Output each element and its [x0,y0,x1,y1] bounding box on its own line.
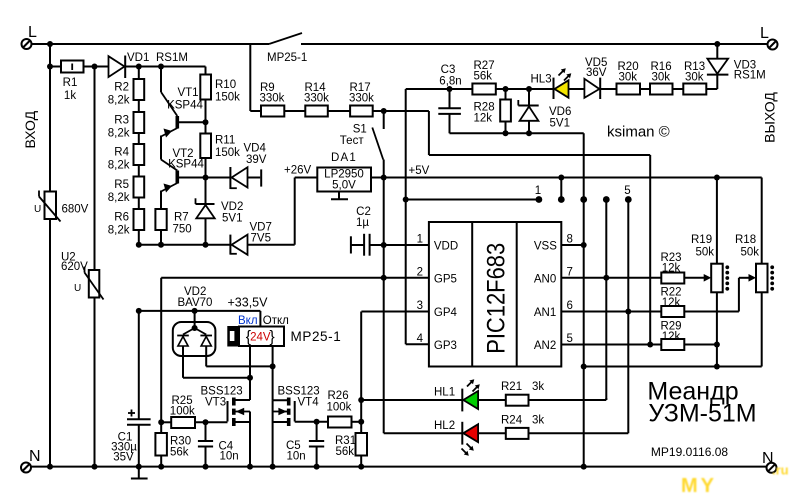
node R28 bottom [503,130,509,136]
zener VD4 39V [206,143,267,190]
svg-text:.ru: .ru [772,463,789,478]
svg-text:2: 2 [417,266,423,278]
node relay pin2 / VT4 drain [270,363,276,369]
ground DA1 [331,192,348,200]
svg-text:Тест: Тест [340,135,365,147]
node R19 gnd [714,364,720,370]
svg-text:5: 5 [624,185,630,197]
svg-text:750: 750 [173,224,192,236]
resistor R28 12k [474,89,511,133]
svg-text:1k: 1k [64,90,76,102]
svg-text:+33,5V: +33,5V [228,296,269,310]
svg-text:7: 7 [567,266,573,278]
svg-text:3: 3 [417,300,423,312]
relay MP25-1 coil [228,315,342,346]
terminal L right [760,25,778,50]
node R7 bottom [158,242,164,248]
svg-text:N: N [29,448,41,465]
svg-text:5: 5 [567,333,573,345]
svg-text:330k: 330k [260,93,285,105]
wire C3 row left [406,88,473,90]
svg-text:HL3: HL3 [531,74,552,86]
zener VD7 7V5 [230,222,294,255]
svg-text:MP19.0116.08: MP19.0116.08 [651,445,728,459]
wire C3 bottom rail [450,132,584,134]
wire gnd bus to pots [584,366,762,368]
resistor R27 56k [472,60,553,95]
node test pin 2 [558,175,565,203]
svg-text:4: 4 [417,333,424,345]
node chain tap [136,308,142,314]
capacitor C4 10n [198,422,239,466]
wire AN1 drop [627,200,629,434]
led HL2 red [384,420,506,456]
svg-text:VT4: VT4 [298,397,320,409]
svg-text:10n: 10n [287,451,306,463]
svg-text:35V: 35V [113,452,134,464]
terminal L left [22,24,38,49]
resistor R29 12k [660,321,716,351]
svg-text:MP25-1: MP25-1 [291,329,342,344]
svg-text:R6: R6 [114,212,129,224]
svg-text:30k: 30k [619,72,638,84]
pin 6 AN1 wire [561,300,661,312]
svg-text:56k: 56k [474,71,493,83]
wire divider bottom rail [139,244,231,246]
svg-text:680V: 680V [62,204,89,216]
node VD6 top [526,86,532,92]
svg-text:VD2: VD2 [221,201,243,213]
svg-text:C3: C3 [441,64,456,76]
svg-text:VT1: VT1 [177,87,198,99]
svg-text:30k: 30k [652,72,671,84]
node +5V / DA1 out [381,175,387,181]
resistor R22 12k [660,287,738,318]
node R19 top +5V [714,175,720,181]
pin 4 label [417,333,424,345]
node gnd wire left [581,364,587,370]
zener VD2 5V1 [196,178,244,245]
wire GP3 net vertical [406,89,429,344]
svg-text:12k: 12k [662,331,681,343]
svg-text:30k: 30k [685,72,704,84]
svg-text:VSS: VSS [534,241,557,253]
resistor R17 330k [349,82,429,117]
wire GP4 net vertical [360,312,362,422]
svg-text:6,8n: 6,8n [439,76,461,88]
svg-text:MP25-1: MP25-1 [267,52,307,64]
node R28 top [503,86,509,92]
svg-text:1: 1 [535,185,541,197]
svg-text:6: 6 [567,300,573,312]
svg-text:KSP44: KSP44 [168,159,204,171]
transistor VT1 KSP44 [161,67,206,160]
svg-text:150k: 150k [215,92,240,104]
svg-text:620V: 620V [61,261,88,273]
svg-text:RS1M: RS1M [156,52,188,64]
resistor R14 330k [304,82,350,117]
svg-text:10n: 10n [220,451,239,463]
svg-text:AN2: AN2 [534,340,556,352]
potentiometer R19 50k [691,178,729,367]
varistor U2 620V [61,252,104,300]
svg-text:R4: R4 [114,147,129,159]
svg-text:100k: 100k [170,406,195,418]
node VT2 base / VD4 / VD2 [203,175,209,181]
svg-text:39V: 39V [246,154,267,166]
node R19 bottom / R29 [714,342,720,348]
resistor R3 8,2k [108,100,144,140]
capacitor C3 6,8n [438,64,461,133]
led HL1 green [361,379,506,411]
svg-text:R3: R3 [114,115,129,127]
svg-text:50k: 50k [696,247,715,259]
svg-text:8,2k: 8,2k [108,192,130,204]
svg-text:PIC12F683: PIC12F683 [483,243,511,354]
led HL3 yellow [531,68,585,99]
svg-text:Откл: Откл [263,315,289,327]
text input label [22,110,38,148]
label +26V [284,165,312,177]
resistor R21 3k [501,381,606,406]
wire R9 feed drop [250,44,261,111]
resistor R31 56k [335,422,367,467]
svg-text:ВЫХОД: ВЫХОД [762,92,778,143]
resistor R30 56k [155,422,191,466]
resistor R5 8,2k [108,165,144,204]
resistor R6 8,2k [108,198,144,245]
transistor VT3 BSS123 [201,386,251,467]
label +33,5V [228,296,269,310]
transistor VT4 BSS123 [273,386,320,467]
resistor R11 150k [200,122,240,177]
svg-text:MY: MY [681,475,717,497]
resistor R7 750 [155,209,191,245]
text output label [762,92,778,143]
svg-text:330k: 330k [349,93,374,105]
node R25 left / R30 top [158,419,164,425]
diode VD5 36V [584,57,616,99]
wire VD7 riser to +26V [294,178,296,245]
svg-text:AN0: AN0 [534,273,556,285]
node rail dots bottom [47,464,587,470]
transistor VT2 KSP44 [161,148,206,209]
wire sense path right [429,111,650,345]
svg-text:8: 8 [567,234,573,246]
svg-text:HL2: HL2 [434,420,455,432]
wire U2 column lower [94,298,96,467]
svg-text:KSP44: KSP44 [167,100,203,112]
resistor R20 30k [617,61,651,95]
capacitor C2 1µ [351,206,384,256]
wire bottom rail [31,466,767,468]
wire top rail left [32,43,270,45]
capacitor C5 10n [286,422,324,467]
wire main mid vertical [383,178,385,434]
svg-text:AN1: AN1 [534,307,556,319]
node connector feed [403,197,409,203]
wire test connector row [406,199,539,201]
node test pin 1 [535,185,543,203]
svg-text:VDD: VDD [434,241,458,253]
regulator DA1 LP2950 5,0V [317,152,371,192]
resistor R24 3k [501,414,628,439]
text doc number [651,445,728,459]
svg-text:BAV70: BAV70 [178,297,213,309]
svg-text:GP3: GP3 [434,340,457,352]
resistor R25 100k [161,395,227,428]
svg-text:1: 1 [417,234,423,246]
node R2 top [136,64,142,70]
resistor R9 330k [260,82,306,117]
terminal N right [762,450,777,473]
diode VD1 RS1M [95,52,188,78]
svg-text:DA1: DA1 [331,152,357,164]
ic U1 PIC12F683 [429,222,561,367]
node C3 top [447,86,453,92]
wire +33,5V line [139,311,261,327]
node U2 top [92,64,98,70]
varistor U1 680V [34,191,89,222]
svg-text:5V1: 5V1 [550,118,570,130]
wire +26V to DA1 [295,177,318,179]
resistor R1 1k (fusible) [50,61,95,103]
svg-text:150k: 150k [215,147,240,159]
wire rail2 to R10 [139,67,206,75]
svg-text:5,0V: 5,0V [332,180,356,192]
svg-text:R1: R1 [63,77,78,89]
zener VD6 5V1 [518,89,571,133]
wire VSS ground drop [583,133,585,466]
potentiometer R18 50k [735,178,774,367]
svg-text:ksiman ©: ksiman © [607,124,670,141]
svg-text:7V5: 7V5 [251,233,271,245]
wire DA1 output [371,177,384,179]
svg-text:3k: 3k [532,381,544,393]
node relay pin1 / VT3 drain [247,375,253,381]
pin 2 label [417,266,423,278]
svg-text:36V: 36V [586,67,607,79]
wire relay pin1 [249,346,251,400]
svg-text:RS1M: RS1M [734,70,766,82]
svg-text:8,2k: 8,2k [108,160,130,172]
svg-text:8,2k: 8,2k [108,95,130,107]
svg-text:R10: R10 [215,79,236,91]
svg-text:12k: 12k [662,263,681,275]
resistor R4 8,2k [108,133,144,172]
svg-text:R19: R19 [691,234,712,246]
pin 3 GP4 wire [361,300,429,312]
diode VD2 BAV70 (dual) [173,286,216,378]
wire left rail upper [49,67,51,192]
svg-text:100k: 100k [327,402,352,414]
resistor R23 12k [660,252,706,284]
svg-text:L: L [760,25,769,42]
svg-text:56k: 56k [170,447,189,459]
pin 5 AN2 wire [561,333,661,345]
wire BAV70 left anode to relay pin1 [183,377,250,379]
watermark MY [681,463,789,498]
node VT1 collector top [158,64,164,70]
text title line1 [647,378,738,406]
resistor R2 8,2k [108,67,144,107]
node VSS drop [581,242,587,248]
svg-text:R11: R11 [215,135,235,147]
switch S1 Тест [340,111,384,178]
wire AN0 drop [605,200,607,401]
svg-text:Вкл: Вкл [238,315,258,327]
svg-text:R7: R7 [174,212,189,224]
capacitor C1 330µ 35V [111,311,151,467]
text title line2 [648,400,756,428]
text ksiman [607,124,670,141]
pin 1 VDD wire [384,234,429,246]
svg-text:U: U [34,204,41,215]
svg-text:1µ: 1µ [356,217,369,229]
svg-text:U: U [74,283,81,294]
node VT3 gate / C4 / R25 [203,419,209,425]
node VD6 bottom [526,130,532,136]
node VD2 bottom [203,242,209,248]
wire left drop to R1 row [49,44,51,67]
pin 7 AN0 wire [561,266,661,278]
diode VD3 RS1M [707,44,766,89]
svg-text:L: L [28,24,37,41]
svg-text:56k: 56k [336,446,355,458]
node test pin 5 [624,185,631,203]
svg-text:330k: 330k [304,93,329,105]
svg-text:GP4: GP4 [434,307,458,319]
wire U2 column upper [94,67,96,271]
wire relay pin2 [272,346,274,400]
svg-text:12k: 12k [662,297,681,309]
resistor R26 100k [327,390,362,428]
svg-text:R5: R5 [114,179,129,191]
svg-text:УЗМ-51М: УЗМ-51М [648,400,756,428]
wire left rail lower [49,219,51,467]
svg-text:3k: 3k [532,414,544,426]
wire top rail right [301,43,768,45]
node HL1 branch [358,397,364,403]
node R1 row left [47,64,53,70]
node C2 / VDD [381,242,387,248]
svg-text:VD6: VD6 [549,106,571,118]
svg-text:24V: 24V [250,332,271,344]
svg-text:R18: R18 [735,234,756,246]
node VT1 base / R10-R11 [203,119,209,125]
node AN1 tap [625,309,631,315]
resistor R16 30k [650,61,683,95]
ground symbol [131,467,148,479]
node GP5 branch [381,275,387,281]
svg-text:+5V: +5V [409,165,430,177]
wire +5V rail [384,177,762,179]
node rail1-left [47,41,53,47]
terminal N left [21,448,41,473]
svg-text:VD1: VD1 [127,52,149,64]
svg-text:R21: R21 [501,381,522,393]
node R17 / S1 tap [381,108,387,114]
node BAV70 cathode tap [192,308,198,314]
svg-text:12k: 12k [474,113,493,125]
svg-text:GP5: GP5 [434,273,457,285]
resistor R10 150k [200,75,240,123]
resistor R13 30k [683,61,717,95]
svg-text:ВХОД: ВХОД [22,110,38,148]
svg-text:8,2k: 8,2k [108,128,130,140]
node AN0 tap [603,275,609,281]
svg-text:VD4: VD4 [244,143,267,155]
label +5V [409,165,430,177]
svg-text:+26V: +26V [284,165,312,177]
node rail1-right VD3 tap [714,41,720,47]
svg-text:R26: R26 [328,390,349,402]
svg-text:50k: 50k [741,247,760,259]
svg-text:R24: R24 [501,414,523,426]
svg-text:HL1: HL1 [434,387,455,399]
node VT4 gate / C5 / R26 [314,419,320,425]
switch MP25-1 (mains contact) [267,33,307,64]
node R26 right / R31 top [358,419,364,425]
wire VT4 gate [295,421,328,423]
pin 8 VSS wire [561,234,583,246]
svg-text:S1: S1 [353,124,367,136]
svg-text:5V1: 5V1 [222,213,242,225]
node test pin 3 [580,196,587,203]
node AN2 tap [647,342,653,348]
node R6 bottom [136,242,142,248]
node test pin 4 [603,196,610,203]
wire GP5 line [161,278,429,423]
svg-text:R2: R2 [114,82,129,94]
svg-text:8,2k: 8,2k [108,225,130,237]
svg-text:VT3: VT3 [205,397,226,409]
wire BAV70 right anode to relay pin2 [206,365,272,367]
